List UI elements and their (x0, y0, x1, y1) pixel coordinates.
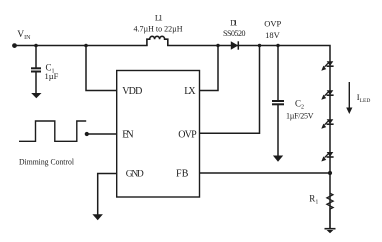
node FB LED junction (328, 171, 332, 175)
LED D4 (321, 119, 333, 129)
node Vin terminal (12, 43, 17, 48)
node LX junction (216, 44, 219, 47)
wire VDD branch (86, 46, 117, 91)
wire GND pin (98, 174, 117, 215)
svg-text:4.7µH to 22µH: 4.7µH to 22µH (134, 25, 183, 34)
svg-text:OVP: OVP (264, 19, 281, 29)
svg-text:FB: FB (176, 169, 189, 180)
wire FB to LED cathode node (200, 172, 331, 174)
wire L1 to LED anode column (168, 46, 330, 229)
node C2 junction (276, 44, 279, 47)
node C1 junction (34, 44, 38, 48)
svg-text:VDD: VDD (122, 86, 142, 97)
svg-text:18V: 18V (265, 30, 281, 40)
svg-text:LX: LX (184, 86, 196, 97)
node VDD junction (84, 44, 88, 48)
svg-text:OVP: OVP (178, 129, 197, 140)
svg-text:L1: L1 (155, 12, 163, 22)
svg-text:D1: D1 (230, 19, 237, 28)
ground below C1 (31, 93, 41, 98)
ground below C2 (273, 156, 283, 162)
ground below GND pin (92, 214, 103, 220)
wire OVP to rail (200, 46, 260, 134)
node OVP junction (258, 44, 261, 47)
op-amp U1 boost driver IC body (117, 71, 200, 198)
wire LX to rail (200, 46, 219, 91)
resistor R1 (327, 193, 333, 228)
wire top rail Vin to L1 (15, 45, 147, 47)
ground below R1 (325, 229, 336, 234)
svg-text:Dimming Control: Dimming Control (19, 156, 75, 166)
LED D5 (321, 152, 333, 162)
wire C1 branch (35, 46, 37, 68)
capacitor C1 (31, 68, 41, 71)
svg-text:1µF/25V: 1µF/25V (286, 111, 314, 120)
svg-text:1µF: 1µF (45, 71, 59, 81)
LED D3 (321, 90, 333, 100)
svg-text:EN: EN (122, 129, 133, 140)
svg-text:SS0520: SS0520 (223, 29, 246, 38)
wire EN input (87, 133, 117, 135)
node EN input terminal (85, 132, 89, 136)
ILED current arrow (346, 82, 352, 114)
capacitor C2 (272, 101, 284, 104)
dimming control square wave (19, 121, 86, 141)
wire C2 branch (277, 46, 279, 101)
inductor L1 (147, 36, 168, 46)
svg-text:GND: GND (126, 170, 144, 180)
LED D2 (321, 61, 333, 70)
diode D1 (231, 41, 239, 49)
